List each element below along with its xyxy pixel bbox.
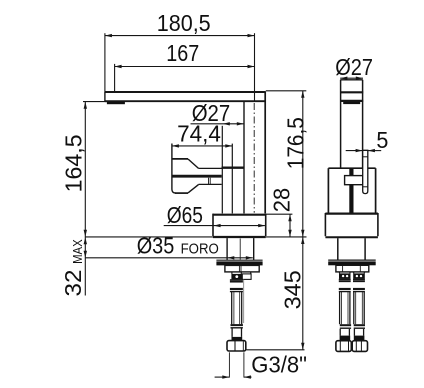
body top [222, 167, 245, 169]
lever blade tick upper [363, 156, 368, 158]
hose ring bands right view [339, 279, 365, 291]
hose lower rings [231, 324, 243, 326]
dimension 167 line [115, 65, 255, 68]
nut facet 1 [238, 265, 240, 272]
svg-text:FORO: FORO [181, 241, 219, 258]
handle knob top [172, 158, 188, 160]
body outline [328, 167, 375, 169]
spout top [105, 91, 265, 93]
mounting nut [225, 265, 259, 272]
hose lower crimp [232, 337, 243, 341]
hose crimp rear [242, 274, 251, 280]
lever hub [345, 176, 363, 185]
lever blade tick lower [363, 186, 368, 188]
washer right view [328, 259, 376, 261]
dimension diam65 line [164, 224, 266, 227]
svg-text:345: 345 [280, 270, 306, 309]
shank centerline [239, 239, 241, 260]
lever slot [349, 169, 353, 213]
deck surface thin line [85, 236, 213, 238]
hose ring band lines [230, 280, 243, 292]
dimension 74,4 line [172, 144, 232, 147]
cartridge collar inner edge [231, 144, 233, 214]
dimension 164,5 / 32 max vertical line [84, 102, 86, 296]
rear hose edge [243, 279, 245, 323]
column left edge [340, 80, 342, 168]
extension flange top right [266, 213, 292, 215]
base flange top [213, 214, 266, 216]
handle taper bottom [188, 185, 199, 193]
extension line spout underside [83, 101, 108, 103]
handle knob bottom [175, 192, 188, 194]
handle stem top [199, 167, 223, 169]
spout band top [340, 91, 363, 93]
spout bottom [105, 100, 265, 102]
washer body [216, 261, 262, 265]
svg-text:167: 167 [166, 40, 199, 66]
handle thick mid seam [173, 175, 222, 178]
dimension 5 line [346, 149, 382, 152]
dimension diam27 left view line [191, 122, 244, 125]
hose crimps right view [339, 273, 351, 279]
G3/8 extension lines [228, 352, 230, 377]
flange bottom thick [213, 236, 266, 238]
svg-text:176,5: 176,5 [283, 117, 309, 169]
shank left [226, 238, 228, 260]
hose tube walls [231, 292, 233, 325]
hose lower rings right view [340, 324, 351, 326]
extension line aerator center [114, 64, 116, 91]
hose crimp front [231, 274, 242, 280]
extension spout top right [266, 90, 307, 92]
hose lower tube [231, 329, 233, 337]
hose end nut [227, 341, 246, 351]
flange right view bottom [325, 236, 378, 238]
base flange left [212, 214, 214, 236]
riser left edge [243, 102, 245, 214]
hose end nuts right view [336, 341, 351, 352]
riser centerline [253, 103, 255, 213]
extension line right (riser axis) [254, 33, 256, 101]
dimension 176,5 arrows [301, 91, 304, 98]
flange right view top [325, 213, 378, 215]
hose tubes right view [340, 292, 365, 325]
dimension 28 vertical line [289, 214, 291, 237]
spout band bottom [340, 100, 363, 102]
dimension 345 arrows [301, 237, 304, 244]
aerator inset bar [343, 102, 360, 104]
handle tick 1 [208, 178, 210, 185]
svg-text:5: 5 [376, 127, 388, 153]
riser right edge [264, 91, 266, 213]
svg-text:74,4: 74,4 [177, 121, 221, 147]
handle knob left edge [172, 144, 176, 194]
svg-text:32: 32 [60, 270, 86, 297]
svg-text:164,5: 164,5 [60, 134, 86, 192]
aerator [107, 102, 125, 104]
extension hose end right [246, 349, 304, 351]
spout left edge [104, 91, 106, 102]
shank right [253, 238, 255, 260]
dimension 164,5 arrows [84, 102, 87, 109]
flange right view sides [324, 213, 326, 236]
lever blade [363, 150, 368, 193]
nut facet 2 [240, 265, 242, 272]
right side dims vertical line 176,5 and 345 [302, 91, 304, 350]
column right edge [362, 80, 364, 168]
hose stub lines [231, 272, 233, 274]
extension line left (spout tip) [104, 33, 106, 91]
cartridge collar left edge [221, 126, 223, 214]
handle stem bottom [199, 183, 222, 185]
svg-text:Ø65: Ø65 [167, 202, 203, 228]
deck surface right extension [266, 236, 307, 238]
svg-text:MAX: MAX [70, 239, 85, 264]
dimension diam27 right view line [340, 77, 363, 80]
hose lower tubes right view [339, 329, 341, 336]
dimension 180,5 line [105, 34, 255, 37]
handle taper top [188, 159, 199, 168]
svg-text:Ø35: Ø35 [137, 233, 175, 259]
washer top line [216, 259, 262, 261]
nut right view [336, 265, 369, 272]
svg-text:G3/8": G3/8" [251, 351, 307, 377]
handle tick 2 [209, 178, 211, 185]
dimension 32 max arrows [84, 237, 87, 244]
shank right view [337, 238, 339, 259]
svg-text:Ø27: Ø27 [335, 54, 373, 80]
hose stubs right view [339, 272, 341, 274]
svg-text:180,5: 180,5 [157, 10, 211, 36]
hose lower crimps right view [340, 336, 351, 341]
base flange right [265, 214, 267, 236]
G3/8 dimension line [215, 375, 252, 378]
column top [340, 79, 363, 81]
deck max thickness line / diam35 dimension line [85, 256, 253, 259]
svg-text:28: 28 [269, 188, 295, 212]
